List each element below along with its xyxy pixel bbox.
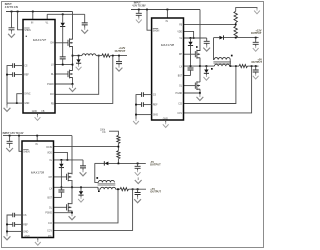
wire divider top jog bottom <box>109 131 118 135</box>
wire bottom GND stub U2 <box>165 120 167 123</box>
node junction T1 secondary-output <box>230 65 232 67</box>
svg-text:VDD: VDD <box>177 31 182 33</box>
wire Q12 drain up <box>199 66 201 82</box>
wire C1 to ground <box>11 30 13 32</box>
svg-text:VDD: VDD <box>47 152 52 154</box>
wire Q1 source to LX <box>72 46 74 64</box>
node junction SYNC-GND <box>16 102 18 104</box>
svg-text:SHDN: SHDN <box>153 30 160 32</box>
diode D22 (catch bottom) <box>78 191 83 195</box>
ground below U3 <box>35 240 41 245</box>
wire D12 to ground <box>205 73 207 75</box>
wire DH gate bottom <box>54 176 67 178</box>
node junction FB divider <box>235 24 237 26</box>
wire C6 to left rail <box>7 74 13 76</box>
svg-text:REF: REF <box>24 75 29 77</box>
wire REF pin cap <box>15 74 24 76</box>
wire Q12 source to PGND <box>199 89 201 93</box>
svg-text:SHDN: SHDN <box>24 30 31 32</box>
diode D2 (catch) <box>76 59 81 63</box>
wire bottom GND stub U1 <box>37 113 39 115</box>
ground below D22 <box>78 197 84 202</box>
resistor R22 (divider bottom) <box>117 151 120 159</box>
ground below PGND bottom <box>69 214 76 220</box>
node junction rail-C11 <box>138 9 140 11</box>
wire input rail bottom <box>3 135 72 137</box>
svg-text:OUTPUT: OUTPUT <box>115 49 126 53</box>
svg-text:4.5V TO 14V: 4.5V TO 14V <box>5 6 19 9</box>
svg-text:OUTPUT: OUTPUT <box>251 31 262 35</box>
node junction CSL tap <box>112 55 114 57</box>
inductor L1 <box>82 54 96 56</box>
wire SHDN stub bottom <box>19 136 22 152</box>
node junction L1-R1 (CSH tap) <box>98 55 100 57</box>
svg-text:BST: BST <box>178 76 183 78</box>
wire T1 secondary left stub <box>213 65 216 67</box>
node junction drain mark <box>196 46 198 48</box>
node junction PGND bottom <box>71 212 73 214</box>
capacitor C21 (input bottom) <box>7 141 13 143</box>
pin SHDN overline U3 <box>23 149 28 151</box>
transformer T1 primary winding <box>214 58 230 60</box>
wire C25 to ground <box>137 195 139 198</box>
capacitor C14 (output A) <box>253 42 259 44</box>
ground divider top TR <box>254 8 260 13</box>
wire line A2 from T2 <box>95 162 105 164</box>
node junction lineB2-C25 <box>137 188 139 190</box>
node junction lineA-C14 <box>255 37 257 39</box>
svg-text:LX: LX <box>179 66 182 68</box>
ground below C21 <box>6 145 13 151</box>
wire DH gate TR <box>184 53 196 55</box>
capacitor C24 (output A2) <box>135 166 141 168</box>
svg-text:FB: FB <box>42 111 45 113</box>
ground below C14 <box>253 46 259 51</box>
wire bottom GND stub U3 <box>37 238 39 241</box>
wire IN stub TR <box>166 10 168 19</box>
svg-text:FB: FB <box>179 24 182 26</box>
svg-text:GND: GND <box>24 103 29 105</box>
wire PGND to ground TR <box>199 93 201 95</box>
wire input rail TL <box>6 11 73 13</box>
wire REF pin cap TR <box>143 104 151 106</box>
svg-text:GND: GND <box>25 236 30 238</box>
svg-text:DH: DH <box>49 177 53 179</box>
wire T2 secondary left stub <box>98 187 100 189</box>
svg-text:PGND: PGND <box>45 213 52 215</box>
wire C23 to BST pin bottom <box>60 192 62 197</box>
wire CS pin cap <box>15 65 24 67</box>
wire C15 to ground <box>255 72 257 74</box>
wire R23 to output B2 <box>129 188 147 190</box>
node junction PGND <box>72 83 74 85</box>
wire C14 stub <box>255 38 257 42</box>
wire VDD line to right <box>47 13 84 15</box>
node junction D21-LX bottom <box>61 186 63 188</box>
resistor R23 (sense bottom) <box>120 188 129 191</box>
transformer T2 core lines <box>98 184 116 185</box>
wire Q21 drain stub <box>70 172 73 175</box>
wire Q21 source to LX bottom <box>70 181 73 188</box>
diode D23 (output A2) <box>104 161 108 165</box>
svg-text:GND: GND <box>23 231 28 233</box>
capacitor C16 (CS filter TR) <box>142 92 144 97</box>
capacitor C26 (CS filter bottom) <box>13 213 15 218</box>
svg-text:MAX1739: MAX1739 <box>31 170 45 174</box>
node junction left rail REF <box>6 74 8 76</box>
wire R22 to line A2 <box>117 159 119 164</box>
transistor Q22 (low-side NFET bottom) <box>67 203 72 212</box>
wire BST pin <box>55 64 73 66</box>
node junction rail-IN bottom <box>36 135 38 137</box>
wire R1 to output <box>110 55 127 57</box>
svg-text:DH: DH <box>50 43 54 45</box>
capacitor C3 (BST) <box>60 57 66 59</box>
transistor Q12 (low-side NFET TR) <box>195 81 200 90</box>
wire line A from T1 <box>214 37 220 39</box>
capacitor C13 (BST TR) <box>188 68 194 70</box>
wire C24 to ground <box>137 168 139 170</box>
svg-text:BST: BST <box>48 197 53 199</box>
wire VL cap stub bottom <box>82 160 84 166</box>
node junction rail-SHDN bottom <box>18 135 20 137</box>
svg-text:LX: LX <box>51 65 54 67</box>
wire divider top jog to ground <box>236 8 257 12</box>
wire R12 to line A <box>235 37 237 39</box>
capacitor C22 (VL bypass bottom) <box>80 166 86 168</box>
wire L1 to R1 <box>96 55 102 57</box>
wire Q11 drain column TR <box>199 10 201 52</box>
wire SYNC jog <box>17 94 23 103</box>
resistor R1 (sense) <box>102 54 111 57</box>
ground below U1 <box>35 115 41 120</box>
wire T1 primary left column <box>213 38 216 60</box>
wire C24 stub <box>137 163 139 166</box>
wire C4 to ground <box>118 64 120 66</box>
node junction left rail REF bottom <box>6 224 8 226</box>
node T2 polarity dot bottom <box>98 190 100 192</box>
wire CS pin cap U3 <box>15 214 22 216</box>
ground below C2 <box>81 27 88 33</box>
wire C4 stub <box>118 56 120 62</box>
diode D11 (boost TR) <box>188 42 193 46</box>
ground below D12 <box>204 75 210 80</box>
wire C16 to left rail TR <box>136 95 142 120</box>
resistor R11 (divider top) <box>234 11 238 22</box>
wire R13 to output B <box>248 65 259 67</box>
node junction rail-IN TR <box>167 9 169 11</box>
ground below C1 <box>8 31 15 37</box>
svg-text:CS: CS <box>24 66 28 68</box>
node junction CCI tap <box>235 65 237 67</box>
wire T1 primary right stub to output line <box>229 60 231 67</box>
svg-text:MAX1738: MAX1738 <box>161 43 175 47</box>
wire VL pin TR <box>184 37 207 39</box>
transformer T2 secondary winding <box>100 187 115 189</box>
node junction VL-D11 <box>190 37 192 39</box>
svg-text:DH: DH <box>179 54 183 56</box>
svg-text:IN: IN <box>166 21 169 23</box>
svg-text:INPUT: INPUT <box>134 3 141 5</box>
ground below C12 <box>203 45 210 51</box>
svg-text:PGND: PGND <box>176 93 183 95</box>
capacitor C5 (CS filter) <box>13 63 15 68</box>
wire PGND pin bottom <box>54 212 73 214</box>
wire CCV feedback TR <box>184 66 252 113</box>
wire line A to output <box>224 37 259 39</box>
wire GND pin U3 <box>7 230 22 232</box>
svg-text:GND: GND <box>32 111 37 113</box>
transistor Q2 (low-side NFET) <box>68 70 73 79</box>
svg-text:OUTPUT: OUTPUT <box>150 190 161 194</box>
wire D22 stub bottom <box>80 187 82 191</box>
node junction lineB-C15 <box>255 65 257 67</box>
capacitor C4 (output) <box>116 62 122 64</box>
node junction CSH tap bottom2 <box>117 188 119 190</box>
ground below C24 small <box>135 170 141 175</box>
ground below C22 <box>80 170 87 176</box>
svg-text:CS: CS <box>153 95 157 97</box>
resistor R12 (divider bottom) <box>234 26 238 37</box>
node junction VDD-D1 <box>62 13 64 15</box>
wire D11 column upper <box>190 38 192 42</box>
wire Q1 drain column <box>72 12 74 40</box>
svg-text:OUTPUT: OUTPUT <box>150 163 161 167</box>
wire CCI feedback bottom <box>54 189 119 223</box>
wire C11 stub <box>138 10 140 14</box>
svg-text:DCIN: DCIN <box>46 147 52 149</box>
svg-text:CCI: CCI <box>48 223 52 225</box>
node junction BST-Q2 drain <box>72 64 74 66</box>
wire SHDN stub <box>18 12 23 30</box>
resistor R13 (sense TR) <box>239 64 248 67</box>
capacitor C2 (bypass) <box>82 23 88 25</box>
wire C13 to BST pin <box>190 70 192 76</box>
wire SHDN stub TR <box>147 10 152 31</box>
svg-text:SYNC: SYNC <box>24 94 31 96</box>
node junction left rail GND TR <box>135 114 137 116</box>
wire C25 stub <box>137 189 139 192</box>
wire D2 stub <box>78 56 80 60</box>
node junction rail-SHDN <box>17 11 19 13</box>
wire C17 to left rail TR <box>136 104 142 106</box>
capacitor C11 (input TR) <box>136 13 142 15</box>
svg-text:REF: REF <box>23 224 28 226</box>
node junction lineA-divider <box>235 37 237 39</box>
node junction LX-D12 <box>206 65 208 67</box>
wire Q22 source to PGND bottom <box>70 211 73 213</box>
wire Q21 drain column bottom <box>71 136 73 175</box>
svg-text:INPUT 4.5V TO 14V: INPUT 4.5V TO 14V <box>3 132 24 135</box>
node junction D11-LX line <box>190 65 192 67</box>
wire T1 secondary right to output <box>230 65 239 67</box>
wire Q2 drain to BST wire <box>72 65 74 71</box>
svg-text:CCV: CCV <box>47 230 52 232</box>
ground below C25 <box>134 197 141 203</box>
wire Q11 drain stub <box>199 50 201 52</box>
capacitor C6 (REF bypass) <box>13 72 15 77</box>
wire BST pin TR <box>184 75 191 77</box>
wire PGND to ground bottom <box>71 213 73 214</box>
wire FB long bottom <box>54 146 119 148</box>
svg-text:GND: GND <box>153 115 158 117</box>
wire C11 to ground <box>138 15 140 17</box>
wire REF pin cap U3 <box>15 223 22 225</box>
node junction LX-Q21 bottom <box>71 186 73 188</box>
wire D11 column lower <box>190 46 192 68</box>
wire left rail to ground <box>6 103 8 106</box>
node junction rail-SHDN TR <box>146 9 148 11</box>
node junction CCV tap bottom <box>132 188 134 190</box>
node junction left rail GND bottom <box>6 231 8 233</box>
wire GND pin TR <box>136 114 152 116</box>
wire input rail TR <box>131 9 200 11</box>
wire PGND pin TR <box>184 92 200 94</box>
ground below U2 <box>163 122 169 127</box>
diode D12 (catch TR) <box>204 70 209 74</box>
wire Q2 source to PGND <box>72 78 74 84</box>
wire C1 stub <box>11 12 13 28</box>
node junction LX-D22 bottom <box>80 186 82 188</box>
node T1 polarity dot top <box>231 55 233 57</box>
pin SHDN overline U2 <box>153 27 158 29</box>
wire Q22 drain up bottom <box>70 187 73 203</box>
node junction lineA2-C24 <box>137 163 139 165</box>
wire pin2 jog bottom <box>54 152 68 160</box>
diode D1 (boost) <box>60 23 65 27</box>
wire C5 to left rail <box>7 66 13 104</box>
wire FB long TR <box>184 23 236 25</box>
capacitor C17 (REF bypass TR) <box>142 102 144 107</box>
ground below D2 <box>76 65 82 70</box>
wire D2 to ground <box>78 63 80 65</box>
wire D22 to ground bottom <box>80 195 82 197</box>
capacitor C23 (BST bottom) <box>58 190 64 192</box>
capacitor C15 (output B) <box>253 70 259 72</box>
wire bypass cap C2 stub <box>84 14 86 22</box>
node junction lineA2-divider <box>118 163 120 165</box>
transformer T2 primary winding <box>98 180 114 182</box>
ground below PGND TR <box>197 94 204 100</box>
wire CSH feedback <box>55 56 99 95</box>
ground left rail TR <box>133 119 139 124</box>
node junction CCV tap <box>251 65 253 67</box>
wire C14 to ground <box>255 44 257 46</box>
ground below C24 second symbol <box>135 177 142 183</box>
node junction PGND TR <box>199 92 201 94</box>
wire C21 stub <box>9 136 11 141</box>
svg-text:FB: FB <box>51 103 54 105</box>
svg-text:INPUT: INPUT <box>5 4 12 6</box>
node junction LX-Q11 <box>199 65 201 67</box>
svg-text:MAX1737: MAX1737 <box>33 38 47 42</box>
wire D1 column upper <box>62 14 64 22</box>
svg-text:CCI: CCI <box>178 104 182 106</box>
op-amp U1 MAX1737 IC body <box>23 20 55 114</box>
wire CSL feedback <box>55 56 113 104</box>
ground below C4 <box>116 65 123 71</box>
transformer T1 secondary winding <box>214 64 229 66</box>
wire PGND pin <box>55 83 73 85</box>
wire R11 to FB node <box>235 23 237 27</box>
wire T2 primary left column <box>95 163 99 182</box>
svg-text:LX: LX <box>49 188 52 190</box>
op-amp U3 MAX1739 IC body <box>22 141 54 238</box>
wire C22 to ground <box>82 168 84 170</box>
wire LX pin TR <box>184 65 214 67</box>
op-amp U2 MAX1738 IC body <box>152 18 184 120</box>
svg-text:PG: PG <box>48 236 52 238</box>
wire BST pin bottom <box>54 196 62 198</box>
wire C2 to ground <box>84 25 86 28</box>
svg-text:4.5V TO 28V: 4.5V TO 28V <box>132 5 146 8</box>
wire DL gate TR <box>184 85 196 87</box>
U1 pin1 mark <box>26 36 27 37</box>
wire LX pin bottom <box>54 186 99 188</box>
wire CCI feedback TR <box>184 66 236 103</box>
wire VL cap stub <box>206 38 208 41</box>
node junction pin2-VL bottom <box>67 159 69 161</box>
svg-text:CS: CS <box>23 215 27 217</box>
wire D21 column upper <box>60 160 62 164</box>
node junction rail-C21 <box>9 135 11 137</box>
node T2 polarity dot top <box>96 177 98 179</box>
wire DL gate bottom <box>54 206 67 208</box>
wire CCV feedback bottom <box>54 189 133 230</box>
wire C3 to BST pin wire <box>62 59 64 65</box>
ground left rail TL <box>4 105 11 111</box>
wire C15 stub <box>255 66 257 70</box>
wire line A2 to output <box>108 162 145 164</box>
node junction VL-D21 <box>61 159 63 161</box>
svg-text:IN: IN <box>35 144 38 146</box>
svg-text:REF: REF <box>153 105 158 107</box>
transformer T1 core lines <box>213 62 231 63</box>
wire Q11 source to LX <box>199 58 201 66</box>
transistor Q21 (high-side NFET bottom) <box>67 173 72 182</box>
capacitor C27 (REF bypass bottom) <box>13 222 15 227</box>
wire IN stub bottom <box>36 136 38 141</box>
wire PGND to ground <box>72 84 74 86</box>
transistor Q1 (high-side NFET) <box>68 38 73 47</box>
wire R21 to FB node bottom <box>117 144 119 151</box>
node junction LX-D2 <box>78 55 80 57</box>
node junction FB divider bottom <box>118 146 120 148</box>
ground below C15 <box>253 74 259 79</box>
resistor R21 (divider top bottom ckt) <box>117 135 120 143</box>
wire GND pin TL <box>7 102 23 104</box>
svg-text:SHDN: SHDN <box>23 151 30 153</box>
svg-text:PGND: PGND <box>47 84 54 86</box>
wire DL gate TL <box>55 73 68 75</box>
capacitor C25 (output B2) <box>135 193 141 195</box>
wire VDD stub (top pin 2) <box>46 14 48 19</box>
wire C12 to ground <box>206 43 208 45</box>
wire pin2 jog TR <box>184 31 194 38</box>
diode D13 (output A) <box>219 35 223 39</box>
wire CS pin cap TR <box>143 94 151 96</box>
wire D12 stub <box>205 66 207 69</box>
node junction rail-DCIN <box>32 11 34 13</box>
svg-text:CCI: CCI <box>50 94 54 96</box>
wire C21 to ground <box>9 143 11 146</box>
node T1 polarity dot bottom <box>211 68 213 70</box>
wire DCIN stub <box>32 12 34 20</box>
svg-text:CCV: CCV <box>177 113 182 115</box>
ground below C11 <box>136 17 142 22</box>
wire LX output line <box>73 55 83 57</box>
wire D21 column lower <box>60 168 62 190</box>
